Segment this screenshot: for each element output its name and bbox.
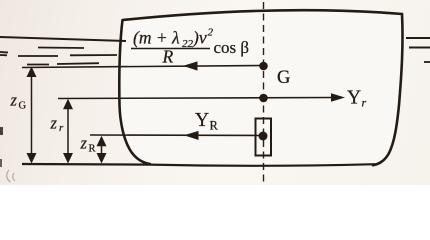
svg-text:z: z	[50, 114, 58, 133]
centrifugal force line	[22, 66, 263, 68]
svg-text:)ν: )ν	[192, 28, 207, 48]
hull outline	[119, 10, 402, 165]
svg-text:G: G	[277, 68, 290, 88]
centerline (dashed vertical)	[263, 2, 265, 182]
svg-text:r: r	[362, 96, 367, 110]
svg-text:cos β: cos β	[214, 38, 250, 57]
baseline (hull bottom / reference line)	[22, 164, 375, 166]
z_G dimension arrow	[31, 70, 33, 161]
rudder rectangle	[256, 119, 272, 156]
svg-text:r: r	[59, 122, 64, 134]
svg-text:R: R	[89, 144, 96, 155]
Y_R line	[90, 134, 263, 137]
water dash right row 2	[409, 47, 430, 49]
waterline right	[406, 37, 430, 39]
point G dot	[259, 62, 268, 71]
water dashes left row 2	[0, 55, 117, 56]
Y_R arrowhead	[184, 131, 199, 140]
rudder dot	[259, 132, 268, 141]
svg-text:Y: Y	[347, 88, 361, 109]
centrifugal force arrowhead	[183, 61, 198, 70]
svg-text:R: R	[210, 119, 219, 133]
waterline left	[0, 37, 126, 41]
svg-text:G: G	[19, 101, 27, 112]
svg-text:2: 2	[208, 27, 214, 39]
z_r dimension arrow	[67, 102, 69, 161]
scan edge artifacts left	[0, 51, 8, 54]
water dash right row 3	[424, 61, 430, 63]
Y_r arrowhead	[331, 93, 345, 101]
hull interior fill	[119, 10, 402, 165]
water dashes left row 3	[27, 63, 99, 64]
svg-text:z: z	[10, 91, 18, 110]
svg-text:z: z	[80, 134, 88, 153]
z_R dimension arrow	[101, 139, 103, 161]
svg-text:Y: Y	[195, 110, 209, 131]
Y_r line	[58, 98, 334, 99]
dot on Y_r line	[259, 94, 268, 103]
svg-text:(m + λ: (m + λ	[133, 28, 180, 48]
formula (m+lambda22)v^2/R cos(beta)	[131, 27, 249, 67]
svg-text:R: R	[162, 47, 174, 67]
water dashes left row 1	[38, 47, 84, 50]
